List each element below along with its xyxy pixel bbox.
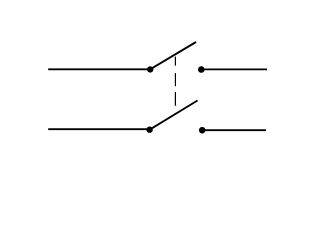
- mechanical gang link (dashed): [174, 57, 176, 106]
- switch SW1a lever (top pole, open): [150, 42, 196, 69]
- node: bottom throw terminal (right): [199, 127, 206, 134]
- switch SW1b lever (bottom pole, open): [150, 101, 198, 130]
- wire: top-left lead: [48, 68, 150, 70]
- node: top pole terminal (left): [147, 66, 153, 72]
- wire: bottom-right lead: [202, 129, 266, 131]
- node: top throw terminal (right): [198, 66, 205, 73]
- wire: top-right lead: [201, 68, 267, 70]
- wire: bottom-left lead: [48, 128, 149, 130]
- node: bottom pole terminal (left): [146, 127, 152, 133]
